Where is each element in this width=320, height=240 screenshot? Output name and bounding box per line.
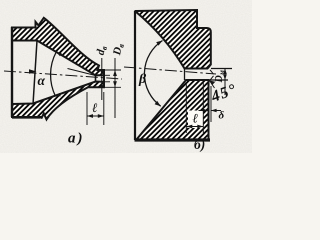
beta arc arrow bottom — [155, 101, 161, 106]
svg-text:б): б) — [194, 137, 205, 152]
dimension d small: line — [101, 58, 103, 100]
left cone inner line — [68, 69, 96, 76]
bottom edge reinforcement — [12, 117, 40, 119]
svg-text:ℓ: ℓ — [193, 111, 199, 126]
d arrows — [100, 69, 104, 75]
right part left edge — [134, 11, 136, 140]
beta arc arrow top — [156, 41, 162, 46]
dimension l right: extension lines — [185, 82, 187, 133]
right part lower section (hatched) — [137, 80, 209, 140]
svg-text:δ: δ — [219, 110, 225, 122]
dimension l left: extension lines — [86, 92, 88, 125]
chamfer leader 45 — [210, 81, 215, 89]
dimension D_m line — [224, 69, 226, 96]
alpha arc arrow top — [56, 52, 62, 56]
left part hole mouth face — [95, 75, 97, 82]
svg-text:α: α — [38, 73, 46, 88]
svg-text:а): а) — [68, 131, 83, 147]
left part bore wall — [33, 41, 37, 105]
angle beta arc — [144, 41, 162, 107]
svg-text:β: β — [138, 72, 147, 87]
angle alpha arc — [51, 52, 57, 96]
left part left face — [11, 27, 13, 117]
dimension delta arrows — [199, 110, 209, 112]
centerline arrow — [29, 69, 37, 73]
svg-text:ℓ: ℓ — [92, 100, 98, 115]
dimension l left: line with arrows — [87, 115, 104, 117]
hole exit chamfer lines — [210, 70, 214, 74]
dimension D_m: extension lines — [211, 68, 232, 70]
dimension delta: extension lines — [208, 86, 210, 122]
hole edge extension stubs — [104, 74, 110, 76]
left part tip face — [103, 70, 105, 87]
left part centerline — [4, 71, 122, 79]
right part upper section (hatched) — [136, 10, 211, 69]
right part centerline — [124, 67, 216, 74]
dimension l right: knockout box — [188, 111, 203, 129]
dimension D outer: extension lines — [104, 69, 121, 71]
left part top wall (hatched section) — [12, 18, 104, 76]
right part hole mouth face — [184, 69, 186, 81]
right part bottom edge — [135, 138, 211, 141]
dimension l right: line with arrows — [186, 126, 203, 128]
left part bottom wall (hatched section) — [12, 82, 104, 120]
dimension D outer: line — [114, 58, 116, 118]
alpha arc arrow bottom — [56, 93, 61, 96]
